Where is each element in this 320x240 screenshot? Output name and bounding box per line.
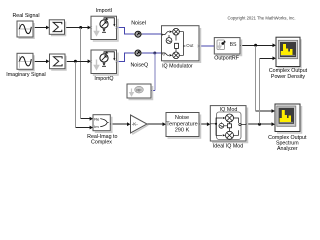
wire OutportRF to Power Density scope top input with junction (240, 43, 276, 47)
wire Gain to Noise Temperature (147, 122, 166, 126)
label Complex Output Spectrum Analyzer (268, 135, 307, 152)
svg-text:Temperature: Temperature (166, 121, 197, 127)
block OutportRF (214, 38, 241, 56)
wire RF ImportI to IQ Modulator I input (117, 28, 162, 35)
svg-text:NoiseI: NoiseI (131, 21, 146, 27)
wire Real-Imag to Complex out to Gain (110, 122, 130, 126)
wire real branch down to Re input (81, 28, 93, 121)
svg-text:Out: Out (186, 43, 194, 48)
block Ideal IQ Mod (210, 106, 247, 143)
label Real Signal (12, 13, 39, 19)
block RF terminator (127, 84, 153, 100)
label ImportI (96, 8, 112, 14)
label Real-Imag to Complex (87, 134, 117, 145)
svg-text:Power Density: Power Density (271, 74, 305, 80)
wire RF ImportQ to IQ Modulator Q input with junction (117, 52, 162, 62)
svg-text:NoiseQ: NoiseQ (130, 63, 148, 69)
wire Noise Temperature to Ideal IQ Mod (199, 122, 210, 126)
svg-text:Im: Im (94, 124, 98, 129)
wire RF IQ Modulator Out to OutportRF (199, 45, 214, 47)
label ImportQ (94, 76, 113, 82)
block Real-Imag to Complex (93, 115, 112, 133)
block Sum1 (49, 20, 65, 36)
svg-text:ImportQ: ImportQ (94, 76, 113, 82)
svg-text:Re: Re (94, 117, 99, 122)
svg-text:Analyzer: Analyzer (277, 146, 298, 152)
svg-text:Noise: Noise (175, 115, 189, 121)
label NoiseI (131, 21, 146, 27)
label Ideal IQ Mod (213, 143, 243, 149)
wire Ideal IQ Mod to Spectrum Analyzer bottom input with junction (246, 122, 275, 126)
label OutportRF (214, 56, 239, 62)
block Complex Output Power Density scope (276, 37, 301, 68)
block NoiseI (134, 31, 142, 37)
svg-text:Complex: Complex (91, 139, 112, 145)
svg-text:Imaginary Signal: Imaginary Signal (6, 72, 45, 78)
block Sum2 (50, 54, 67, 70)
svg-text:290 K: 290 K (175, 128, 190, 134)
svg-text:BS: BS (230, 42, 237, 48)
wire imaginary branch down to Im input (75, 62, 93, 130)
svg-text:ImportI: ImportI (96, 8, 112, 14)
wire Sine2 to Sum2 (33, 59, 49, 63)
block Sine Wave Imaginary Signal (17, 53, 34, 70)
svg-text:Q: Q (162, 51, 165, 56)
label Complex Output Power Density (269, 68, 308, 80)
svg-text:OutportRF: OutportRF (214, 56, 239, 62)
svg-text:RF: RF (136, 87, 142, 92)
block Complex Output Spectrum Analyzer scope (275, 104, 302, 133)
svg-text:-K-: -K- (132, 122, 139, 127)
svg-text:Copyright 2021 The MathWorks,: Copyright 2021 The MathWorks, Inc. (228, 16, 296, 21)
wire Sum2 to ImportQ with junction (65, 59, 91, 63)
block IQ Modulator (162, 26, 201, 63)
block NoiseQ (134, 50, 142, 56)
wire ideal path up to Power Density scope bottom input (260, 56, 276, 123)
label IQ Modulator (162, 63, 193, 69)
wire Sum1 to ImportI with junction (65, 26, 92, 30)
block Noise Temperature (166, 113, 201, 139)
wire Sine1 to Sum1 (33, 26, 49, 30)
block Gain (131, 115, 149, 134)
block ImportI (90, 16, 118, 41)
wire RF path down to Spectrum Analyzer top input (256, 46, 275, 113)
svg-text:IQ Modulator: IQ Modulator (162, 63, 193, 69)
svg-text:Real Signal: Real Signal (12, 13, 39, 19)
block Sine Wave Real Signal (17, 21, 34, 38)
label NoiseQ (130, 63, 148, 69)
svg-text:Ideal IQ Mod: Ideal IQ Mod (213, 143, 243, 149)
wire RF tap down to RF terminator block (151, 54, 155, 91)
label Imaginary Signal (6, 72, 45, 78)
label copyright (228, 16, 296, 21)
block ImportQ (90, 50, 118, 75)
